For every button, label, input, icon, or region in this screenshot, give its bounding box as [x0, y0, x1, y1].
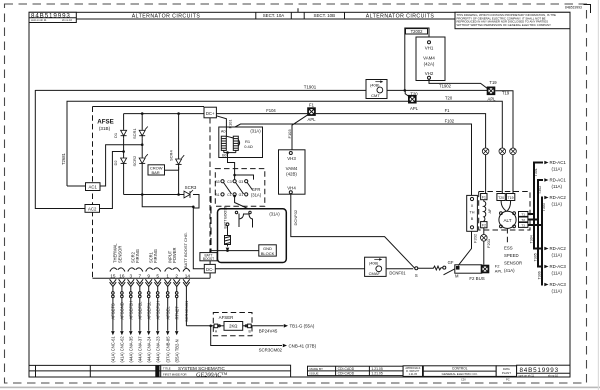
svg-text:WITHOUT WRITTEN PERMISSION: WITHOUT WRITTEN PERMISSION OF GENERAL EL…	[457, 23, 552, 27]
switch GF blade	[444, 268, 458, 275]
svg-text:T20: T20	[498, 196, 504, 200]
heavy wire T305	[538, 220, 543, 267]
svg-text:RD-AC1: RD-AC1	[550, 160, 567, 165]
connector (55A) TB2-N	[175, 331, 179, 335]
svg-text:T2002: T2002	[411, 29, 424, 34]
svg-text:GE200AC™: GE200AC™	[196, 371, 228, 378]
svg-text:B3: B3	[215, 180, 219, 184]
svg-text:SCR2: SCR2	[132, 155, 137, 166]
svg-text:CMAF: CMAF	[369, 271, 381, 276]
wire T1901	[35, 89, 487, 91]
wire bridge lower tap	[142, 195, 193, 207]
svg-text:T302: T302	[538, 186, 542, 194]
svg-text:cont on sh 11: cont on sh 11	[519, 373, 535, 377]
svg-text:CDI: CDI	[461, 377, 466, 381]
terminal AC2	[85, 205, 100, 213]
svg-text:PC: PC	[506, 377, 510, 381]
svg-text:RD-AC2: RD-AC2	[550, 195, 567, 200]
boost resistor arrow	[227, 245, 229, 247]
junction AC2 tap	[122, 150, 125, 153]
svg-text:1.21.05: 1.21.05	[371, 372, 382, 376]
svg-text:T304: T304	[530, 235, 534, 243]
AFSER terminal A	[214, 324, 218, 328]
ESS leader	[506, 228, 508, 243]
connector (44A) CNA-37	[138, 331, 142, 335]
wire SCR3CM01	[185, 287, 187, 326]
svg-text:SCR1: SCR1	[132, 128, 137, 139]
wire AFSGND	[121, 287, 123, 292]
svg-text:F202: F202	[473, 233, 478, 243]
terminal DC-	[204, 264, 215, 273]
svg-text:VH2: VH2	[425, 71, 434, 76]
GFR contact C1	[233, 193, 236, 196]
arrow CNB-41	[283, 344, 287, 348]
terminal AC1	[86, 183, 101, 191]
svg-text:(40B): (40B)	[369, 261, 379, 265]
fold mark top	[297, 8, 299, 12]
alternator ALT	[499, 211, 516, 228]
svg-text:T2: T2	[521, 218, 525, 222]
wire F201	[483, 228, 485, 265]
svg-text:BAR: BAR	[151, 170, 159, 175]
svg-text:(44A) CNA-37: (44A) CNA-37	[138, 336, 143, 363]
wire DCNF01	[386, 268, 413, 270]
svg-text:VAM4: VAM4	[286, 166, 298, 171]
svg-text:5: 5	[156, 273, 159, 278]
terminal T19 alt	[506, 194, 514, 201]
pin pair brace	[165, 268, 180, 272]
svg-text:(11A): (11A)	[552, 202, 563, 207]
GFR contact C3	[233, 180, 236, 183]
GFR blade 3	[247, 183, 252, 191]
svg-text:(41A): (41A)	[504, 268, 515, 273]
bridge top rail	[124, 113, 204, 115]
svg-text:ISSUE: ISSUE	[310, 372, 319, 376]
wire DCNF02	[291, 194, 415, 269]
svg-text:T303: T303	[542, 203, 546, 211]
svg-text:FIRST MADE FOR: FIRST MADE FOR	[163, 372, 187, 376]
svg-text:TITLE: TITLE	[163, 366, 171, 370]
wire AFSEF1H	[157, 287, 159, 292]
wire F101	[216, 116, 226, 136]
wire B0 to GFR	[228, 158, 235, 180]
F2 bus bar	[455, 265, 482, 273]
svg-text:(31B): (31B)	[99, 126, 111, 131]
appliance connector F2 APL	[481, 265, 490, 274]
batt boost (31A) rounded box	[218, 209, 287, 263]
wire F103	[292, 115, 308, 150]
svg-text:F2 BUS: F2 BUS	[469, 276, 484, 281]
wire RTN27	[176, 287, 178, 292]
wire T19 into alt	[507, 201, 511, 212]
svg-text:B0: B0	[222, 154, 227, 158]
wire T2681	[67, 101, 408, 186]
arrow TB1-G	[284, 324, 288, 328]
svg-text:SECT. 10B: SECT. 10B	[314, 13, 336, 18]
svg-text:T20: T20	[445, 96, 453, 101]
svg-text:RD-AC3: RD-AC3	[550, 264, 567, 269]
svg-text:0.4Ω: 0.4Ω	[244, 144, 253, 149]
sheet number box top-left	[29, 12, 76, 22]
svg-text:(11A): (11A)	[552, 271, 563, 276]
svg-text:T19: T19	[502, 91, 510, 96]
wire T20 into alt	[501, 201, 506, 212]
svg-text:BP24V45: BP24V45	[259, 329, 278, 334]
header strip line	[29, 18, 570, 20]
svg-text:DCNF01: DCNF01	[389, 270, 406, 275]
svg-text:(41A) CNC-62: (41A) CNC-62	[120, 336, 125, 363]
connector (41A) CNC-62	[120, 331, 124, 335]
svg-text:F103: F103	[287, 129, 292, 139]
svg-text:2KΩ: 2KΩ	[229, 324, 237, 329]
gnd block box	[259, 245, 277, 256]
wire GFR C1 out	[235, 196, 256, 212]
wire AFSEF2L	[139, 287, 141, 292]
svg-text:SECT. 10A: SECT. 10A	[263, 13, 285, 18]
bridge left leg middle	[123, 138, 125, 157]
svg-text:SCR4: SCR4	[169, 150, 174, 161]
resistor 2K	[224, 322, 243, 331]
wire F1	[316, 114, 486, 194]
connector (44A) CNA-24	[147, 331, 151, 335]
svg-text:1.21.05: 1.21.05	[409, 373, 418, 376]
wire SCR3CM02	[211, 326, 282, 346]
heavy wire T304	[534, 214, 543, 249]
arrow RD-AC3 (5)	[544, 283, 548, 287]
bridge right leg upper	[141, 114, 143, 130]
heavy wire T302	[528, 180, 543, 220]
field coil AF	[484, 200, 486, 222]
pin pair brace	[110, 268, 125, 272]
svg-text:(44A) CNA-23: (44A) CNA-23	[156, 336, 161, 363]
title block rows	[29, 364, 161, 366]
batt boost terminal box	[200, 253, 217, 261]
svg-text:PLANT: PLANT	[502, 371, 511, 375]
svg-text:B1: B1	[215, 193, 219, 197]
appliance connector F1 APL	[307, 107, 316, 116]
svg-text:DC-: DC-	[206, 267, 214, 272]
bridge left leg upper	[123, 114, 125, 130]
control box	[423, 366, 496, 377]
svg-text:AC2: AC2	[88, 206, 97, 211]
screen edge shading bottom	[0, 387, 600, 389]
GFR branch wire	[235, 175, 254, 180]
svg-text:RD-AC3: RD-AC3	[550, 282, 567, 287]
svg-text:APL: APL	[410, 106, 419, 111]
arrow RD-AC1 (0)	[544, 161, 548, 165]
thyristor SCR3	[184, 191, 190, 198]
svg-text:T1: T1	[521, 212, 525, 216]
svg-text:SENSOR: SENSOR	[504, 261, 522, 266]
terminal T2	[519, 217, 528, 222]
sheet number box bottom-right	[517, 365, 570, 377]
svg-text:7: 7	[138, 273, 141, 278]
svg-text:84B519993: 84B519993	[520, 367, 559, 374]
wire BP24V45	[251, 325, 283, 327]
svg-text:AFSEL: AFSEL	[166, 306, 171, 320]
switch GF stationary	[415, 267, 418, 270]
GFR contact G3	[245, 180, 248, 183]
GFR contact B3	[221, 180, 224, 183]
bridge bottom rail	[124, 194, 184, 196]
svg-text:APL: APL	[308, 117, 317, 122]
svg-text:C3: C3	[227, 180, 231, 184]
wire boost resistor top	[227, 226, 229, 236]
svg-text:AFSGND: AFSGND	[120, 302, 125, 319]
svg-text:F101: F101	[227, 119, 232, 129]
wire AFSEF2H	[130, 287, 132, 292]
plant box	[496, 366, 516, 377]
GFR dashed box	[215, 169, 264, 207]
wire T1901 to T20 APL	[405, 90, 409, 96]
svg-text:D1: D1	[113, 132, 118, 138]
wire T20	[417, 101, 503, 193]
page corner mark top-right	[584, 5, 591, 14]
heavy wire T301	[528, 163, 543, 215]
wire F102 tap	[235, 124, 472, 195]
wire T1902	[429, 79, 488, 88]
svg-text:3: 3	[129, 273, 132, 278]
svg-text:GENERAL ELECTRIC CO.: GENERAL ELECTRIC CO.	[442, 372, 478, 376]
svg-text:F1: F1	[482, 195, 486, 199]
svg-text:T20: T20	[410, 91, 418, 96]
svg-text:FIRING: FIRING	[153, 249, 158, 263]
svg-text:CDI-CADD: CDI-CADD	[338, 367, 355, 371]
wire crowbar to SCR4	[165, 169, 179, 171]
svg-text:(42A): (42A)	[424, 61, 435, 66]
resistor element R1b	[233, 136, 238, 150]
resistor element R1a	[221, 136, 226, 150]
svg-text:F102: F102	[445, 119, 455, 124]
wire to gnd block	[210, 251, 259, 253]
diode D2	[123, 157, 125, 166]
thyristor SCR4 branch	[178, 114, 180, 158]
svg-text:AFSE: AFSE	[97, 119, 114, 126]
svg-text:1.21.05: 1.21.05	[371, 367, 382, 371]
pin pair brace	[128, 268, 143, 272]
bridge right leg middle	[141, 138, 143, 157]
svg-text:GF: GF	[448, 260, 454, 265]
svg-text:X: X	[471, 204, 474, 208]
svg-text:BLOCK: BLOCK	[261, 251, 275, 256]
arrow RD-AC2 (3)	[544, 247, 548, 251]
terminal F1 alt	[481, 194, 487, 200]
svg-text:S: S	[415, 273, 418, 278]
svg-text:APL: APL	[495, 268, 503, 273]
pin 14 brace	[183, 268, 190, 271]
terminal DC+	[204, 107, 216, 118]
svg-text:DCNF02: DCNF02	[293, 209, 298, 225]
AFSER terminal B	[248, 324, 252, 328]
svg-text:(11A): (11A)	[552, 253, 563, 258]
svg-text:BATT BOOST CHG.: BATT BOOST CHG.	[183, 232, 188, 268]
svg-text:CNB-41 (37B): CNB-41 (37B)	[289, 343, 317, 348]
plug T19	[510, 148, 517, 155]
heavy wire T306	[542, 225, 543, 285]
svg-text:F2: F2	[482, 224, 486, 228]
svg-text:(42B): (42B)	[286, 172, 297, 177]
svg-text:SPEED: SPEED	[504, 253, 519, 258]
heavy wire T303	[528, 198, 543, 226]
svg-text:DC+: DC+	[206, 111, 215, 116]
svg-text:(31A): (31A)	[250, 128, 261, 133]
boost resistor hatched	[225, 236, 231, 245]
svg-text:AFSER: AFSER	[219, 315, 234, 320]
svg-text:SCR3CM02: SCR3CM02	[259, 347, 283, 352]
junction AC1 tap	[141, 143, 144, 146]
wire batt-boost to DC-	[209, 261, 211, 265]
wire SCR3 cathode	[193, 195, 204, 269]
plug F1	[482, 148, 489, 155]
thyristor SCR1	[141, 129, 143, 138]
connector (41A) CNC-61	[111, 331, 115, 335]
svg-text:G1: G1	[239, 193, 244, 197]
appliance connector T20 APL	[408, 95, 417, 104]
svg-text:VAM4: VAM4	[423, 56, 435, 61]
svg-text:TB1-G (55A): TB1-G (55A)	[290, 324, 315, 329]
switch GF contact	[443, 266, 446, 269]
svg-text:T1902: T1902	[439, 83, 452, 88]
thyristor SCR2	[141, 157, 143, 166]
GFR contact B1	[221, 193, 224, 196]
svg-text:F1: F1	[445, 108, 451, 113]
svg-text:sh no 10: sh no 10	[548, 373, 559, 377]
wire AC1 tap	[100, 145, 142, 186]
svg-text:MADE BY: MADE BY	[310, 367, 324, 371]
arrow RD-AC2 (2)	[544, 196, 548, 200]
svg-text:G3: G3	[239, 180, 244, 184]
diode D1	[123, 129, 125, 138]
wire F202	[458, 232, 471, 266]
wire DC- to bottom rail	[209, 273, 211, 278]
svg-text:2: 2	[175, 273, 178, 278]
svg-text:AFSETS: AFSETS	[111, 303, 116, 319]
resistor module (31A) box	[219, 127, 263, 158]
made-by box	[308, 366, 404, 375]
wire T2002 riser	[405, 28, 429, 90]
svg-text:GFR: GFR	[252, 187, 261, 192]
thyristor SCR4	[178, 158, 180, 167]
svg-text:(31A): (31A)	[269, 211, 280, 216]
svg-text:VH3: VH3	[287, 156, 296, 161]
svg-text:D2: D2	[113, 160, 118, 166]
svg-text:VH4: VH4	[287, 185, 296, 190]
GFR contact G1	[245, 193, 248, 196]
pin pair brace	[146, 268, 161, 272]
wire S squiggle	[418, 266, 443, 270]
AFSER dashed box	[213, 313, 252, 336]
wire AC2 riser from T1901	[35, 90, 85, 209]
wire AC1 from T2681	[67, 185, 86, 187]
svg-text:(11A): (11A)	[552, 184, 563, 189]
svg-text:T1901: T1901	[304, 85, 317, 90]
terminal F2 alt	[481, 222, 487, 228]
svg-text:14: 14	[185, 273, 191, 278]
svg-text:ALT: ALT	[503, 218, 511, 223]
svg-text:9: 9	[147, 273, 150, 278]
wire AC2 tap	[99, 152, 124, 209]
wire SCR4 cathode	[178, 167, 180, 170]
crowbar module	[148, 165, 165, 175]
svg-text:M: M	[455, 274, 459, 279]
svg-text:SCR3: SCR3	[185, 185, 197, 190]
label T2002	[406, 29, 428, 34]
current transformer CMAF	[365, 257, 387, 276]
connector (44A) CNA-35	[129, 331, 133, 335]
svg-text:AFSEF2H: AFSEF2H	[129, 301, 134, 320]
plug T20	[499, 148, 506, 155]
svg-text:BOOST: BOOST	[203, 257, 214, 261]
svg-text:F104: F104	[266, 108, 276, 113]
wire T19 to alternator	[495, 91, 513, 194]
svg-text:(44A) CNA-24: (44A) CNA-24	[147, 336, 152, 363]
GFR blade 1	[224, 183, 232, 195]
junction T1901/T2002	[404, 89, 407, 92]
svg-text:1: 1	[166, 273, 169, 278]
approvals box	[403, 366, 422, 377]
svg-text:84B519993: 84B519993	[565, 6, 582, 10]
wire AFSEF1L	[148, 287, 150, 292]
bridge right leg lower	[141, 166, 143, 195]
proprietary note box	[455, 12, 570, 28]
svg-text:cont on sh 11: cont on sh 11	[31, 18, 47, 22]
arrow RD-AC3 (4)	[544, 265, 548, 269]
svg-text:16: 16	[119, 273, 125, 278]
svg-text:AFSEF2L: AFSEF2L	[138, 301, 143, 320]
GFR blade 2	[236, 183, 244, 195]
svg-text:SCR3CM01: SCR3CM01	[184, 300, 189, 322]
svg-text:(37A) CNB-85: (37A) CNB-85	[166, 336, 171, 363]
svg-text:sh no 10: sh no 10	[62, 18, 73, 22]
batt boost contact drawing	[239, 214, 253, 228]
svg-text:T301: T301	[534, 168, 538, 176]
svg-text:POWER: POWER	[172, 247, 177, 263]
voltage module VAM4 (42B)	[279, 150, 306, 194]
voltage module VAM4 (42A)	[416, 37, 445, 81]
title block black cell	[155, 365, 159, 377]
svg-text:(31A): (31A)	[251, 193, 262, 198]
AFSE enclosure	[93, 106, 205, 108]
wire AFSETS	[112, 287, 114, 292]
svg-text:CMT: CMT	[371, 93, 380, 98]
svg-text:CDI-CADD: CDI-CADD	[338, 372, 355, 376]
fuse F104 wire	[216, 113, 307, 115]
svg-text:T2681: T2681	[61, 152, 66, 165]
svg-text:TH: TH	[469, 210, 474, 214]
svg-text:FIRING: FIRING	[135, 249, 140, 263]
terminal T1	[519, 212, 528, 217]
svg-text:(55A) TB2-N: (55A) TB2-N	[175, 339, 180, 362]
svg-text:AFSEF1L: AFSEF1L	[147, 301, 152, 320]
thermal device TH box	[467, 195, 478, 231]
header divider	[255, 12, 257, 19]
arrow RD-AC1 (1)	[544, 178, 548, 182]
svg-text:AFSEF1H: AFSEF1H	[156, 301, 161, 320]
svg-text:(11A): (11A)	[552, 167, 563, 172]
svg-text:RD-AC2: RD-AC2	[550, 246, 567, 251]
svg-text:A0: A0	[221, 130, 226, 134]
ESS sensor dashed box	[479, 192, 530, 231]
svg-text:SYSTEM SCHEMATIC: SYSTEM SCHEMATIC	[178, 366, 226, 371]
terminal T20 alt	[497, 194, 505, 201]
bridge left leg lower	[123, 166, 125, 195]
appliance connector T19 APL	[487, 87, 496, 96]
svg-text:15: 15	[110, 273, 116, 278]
connector (44A) CNA-23	[156, 331, 160, 335]
svg-text:VH1: VH1	[425, 45, 434, 50]
current transformer CMT	[366, 80, 387, 99]
svg-text:(41A) CNC-61: (41A) CNC-61	[111, 336, 116, 363]
